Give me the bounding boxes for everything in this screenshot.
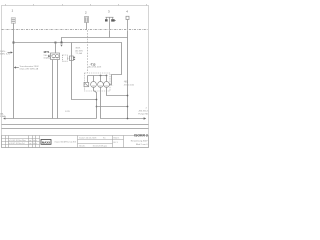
wire phase B down then right <box>101 87 128 118</box>
svg-text:gp: gp <box>29 143 31 145</box>
svg-text:Einspeisung 400V: Einspeisung 400V <box>131 141 148 143</box>
wire phase C down then right to collector <box>107 87 128 95</box>
wire phase A down to N rail <box>94 87 97 118</box>
node dot <box>100 75 102 77</box>
meter output wires <box>52 60 54 119</box>
main bus wire L (vertical from Q1 down) <box>13 23 15 118</box>
off-page arrow down (control feed) <box>60 45 62 47</box>
svg-text:Blatt 1: Blatt 1 <box>114 136 121 139</box>
stub to aux block <box>87 76 89 83</box>
overload element L2 <box>98 82 104 88</box>
upper feed link wire to supply sockets <box>62 38 128 43</box>
supply socket S3 (top) <box>105 9 116 29</box>
svg-text:Blatt 2 von 6: Blatt 2 von 6 <box>136 143 148 146</box>
svg-text:N PE: N PE <box>65 111 70 113</box>
node dot at collector bottom bend <box>127 118 129 120</box>
N rail <box>2 128 149 130</box>
svg-text:Bl. 3: Bl. 3 <box>114 142 119 144</box>
motor starter dashed enclosure <box>85 73 111 91</box>
supply device Q1 (top left) <box>11 8 15 23</box>
svg-text:T 1,6A: T 1,6A <box>75 52 82 55</box>
svg-text:1: 1 <box>12 8 14 12</box>
supply fuse S2 (top, panel side) <box>85 11 89 30</box>
drawing frame border <box>2 6 149 148</box>
feed wire F1 to starter <box>14 43 122 85</box>
svg-text:3: 3 <box>108 9 110 13</box>
mechanical link dashed wire from S2 to starter <box>87 30 89 73</box>
energy meter MT1 label <box>43 50 53 60</box>
enclosure boundary dash-dot line <box>2 29 149 31</box>
svg-text:4: 4 <box>126 9 128 13</box>
overload element L3 <box>104 82 110 88</box>
svg-text:(SL.0701.007): (SL.0701.007) <box>88 67 101 69</box>
mid wire to collector <box>97 106 128 108</box>
energy meter MT1 <box>51 53 60 60</box>
svg-text:ISOKR 3: ISOKR 3 <box>134 134 148 138</box>
svg-text:MAXX: MAXX <box>42 140 50 144</box>
title field texts <box>79 136 120 147</box>
svg-text:AC 36V: AC 36V <box>75 49 83 52</box>
wire meter input <box>55 43 57 54</box>
svg-text:MT1: MT1 <box>44 50 50 54</box>
revision table entries <box>9 140 37 145</box>
svg-text:Transformator 230V: Transformator 230V <box>19 65 39 68</box>
svg-text:x: x <box>36 140 37 142</box>
svg-text:Pumpe M1: Pumpe M1 <box>138 113 149 115</box>
node dot on collector <box>127 106 129 108</box>
svg-text:Bearb.: Bearb. <box>79 144 86 147</box>
svg-text:maxx GmbH & Co.KG: maxx GmbH & Co.KG <box>55 141 77 143</box>
title block <box>2 136 149 148</box>
supply fuse S4 (top right) <box>126 9 129 29</box>
svg-text:-W1: -W1 <box>124 81 129 83</box>
node junction on bus at feed line <box>13 42 15 44</box>
svg-text:Kn: Kn <box>103 137 106 139</box>
node junction at step <box>61 42 63 44</box>
node dot mid join <box>96 106 98 108</box>
bottom N wire <box>5 118 96 120</box>
fuse F2 value labels <box>75 48 83 56</box>
PE rail <box>2 124 149 126</box>
aux contact block <box>84 82 89 86</box>
svg-text:relais 24V 50Hz 2A: relais 24V 50Hz 2A <box>19 68 38 71</box>
incoming supply label arrow (left margin) <box>0 51 13 56</box>
node dot <box>106 75 108 77</box>
svg-text:a 14.05.18 Rev.Wan: a 14.05.18 Rev.Wan <box>9 140 26 142</box>
svg-text:Datum 14.05.2018: Datum 14.05.2018 <box>79 136 97 139</box>
wire S3 feed <box>109 30 111 37</box>
collector wire from S4 down to outgoing arrow <box>128 30 146 118</box>
svg-text:50Hz 3+N: 50Hz 3+N <box>0 53 10 55</box>
node dot fuse join <box>96 99 98 101</box>
frame column ticks top <box>6 4 147 6</box>
starter internal top bus <box>88 75 107 77</box>
fuse F2 branch wire <box>72 43 97 100</box>
phase stubs into overload circles <box>93 76 95 82</box>
node dot on collector <box>127 95 129 97</box>
svg-text:b 03.07.18 Rev.Zul: b 03.07.18 Rev.Zul <box>9 143 25 145</box>
outgoing transformer feed arrow on bus <box>14 65 40 71</box>
svg-text:3~: 3~ <box>111 85 114 87</box>
N wire off-page arrow left <box>3 117 5 119</box>
fuse F2 <box>70 56 76 61</box>
svg-text:2: 2 <box>85 11 87 15</box>
company logo box <box>41 140 51 145</box>
svg-text:1,3kA: 1,3kA <box>0 115 6 118</box>
outgoing arrow (bottom right off-page) <box>144 117 147 120</box>
overload element L1 <box>91 82 97 88</box>
svg-text:x: x <box>36 143 37 145</box>
svg-text:2: 2 <box>146 107 148 109</box>
svg-text:4G1,5 10m: 4G1,5 10m <box>124 84 135 86</box>
svg-text:-W3 4G1,5: -W3 4G1,5 <box>138 110 149 112</box>
function box (dashed) linked to fuse <box>63 55 68 61</box>
svg-text:36V1: 36V1 <box>75 48 81 50</box>
svg-text:16.04.2018 gep: 16.04.2018 gep <box>93 145 108 147</box>
svg-text:gp: gp <box>29 140 31 142</box>
node junction meter tap <box>55 42 57 44</box>
